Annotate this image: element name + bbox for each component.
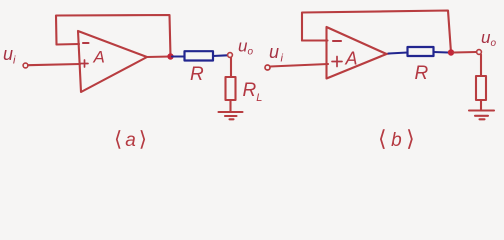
wire inverting input (a) xyxy=(57,43,80,46)
wire node to R (a) xyxy=(172,55,185,57)
wire input (a) xyxy=(28,64,80,65)
wire input (b) xyxy=(270,64,328,67)
resistor RL (a) xyxy=(226,77,236,100)
node feedback (b) xyxy=(448,49,454,55)
svg-text:uo: uo xyxy=(238,37,253,58)
wire RL to ground (b) xyxy=(480,100,482,110)
svg-text:RL: RL xyxy=(243,80,263,104)
op-amp A (b) xyxy=(327,27,387,79)
wire R to uo (a) xyxy=(213,54,227,57)
wire uo down to RL (b) xyxy=(480,55,482,77)
svg-text:A: A xyxy=(93,48,105,67)
svg-text:R: R xyxy=(190,64,204,85)
resistor R (b) xyxy=(408,47,434,56)
terminal uo (a) xyxy=(228,53,233,58)
label plus (b) xyxy=(332,57,342,67)
svg-text:ui: ui xyxy=(269,42,284,65)
resistor R (a) xyxy=(185,51,214,60)
wire R to node (b) xyxy=(434,51,449,54)
ground (b) xyxy=(469,111,494,120)
wire feedback loop (b) xyxy=(302,11,451,53)
terminal uo (b) xyxy=(477,50,482,55)
wire output (a) xyxy=(147,55,171,58)
wire to R (b) xyxy=(389,53,408,54)
svg-text:R: R xyxy=(415,63,429,84)
wire output apex (b) xyxy=(386,52,390,55)
terminal ui (a) xyxy=(23,63,28,68)
node output (a) xyxy=(167,53,173,59)
svg-text:ui: ui xyxy=(3,44,16,67)
wire feedback loop (a) xyxy=(56,15,171,57)
wire node to uo (b) xyxy=(454,51,477,54)
svg-text:⟨a⟩: ⟨a⟩ xyxy=(114,128,147,151)
label minus (b) xyxy=(333,40,341,42)
resistor RL (b) xyxy=(476,76,486,100)
svg-text:A: A xyxy=(345,49,358,69)
svg-text:uo: uo xyxy=(481,28,496,49)
svg-text:⟨b⟩: ⟨b⟩ xyxy=(378,126,415,151)
wire RL to ground (a) xyxy=(229,100,231,112)
wire uo down to RL (a) xyxy=(230,58,232,78)
wire inverting input (b) xyxy=(302,39,328,41)
ground (a) xyxy=(219,112,243,119)
op-amp A (a) xyxy=(78,31,147,92)
label plus (a) xyxy=(81,60,88,67)
terminal ui (b) xyxy=(265,65,270,70)
label minus (a) xyxy=(83,42,89,44)
